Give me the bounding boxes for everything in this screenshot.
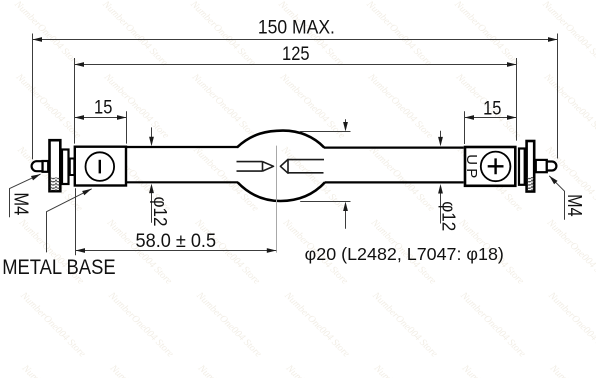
tube wall bottom-left segment	[127, 181, 238, 183]
UP label	[463, 154, 480, 178]
extension line 58 left	[75, 188, 77, 255]
extension line 150 left	[32, 34, 34, 160]
extension line 150 right	[557, 34, 559, 159]
dimension text 150 MAX	[258, 17, 335, 38]
phi12 left arrow bottom	[149, 184, 154, 223]
M4 label right	[563, 194, 585, 217]
dimension line 125	[75, 62, 517, 67]
dimension line 58.0	[76, 248, 277, 253]
right pin cap	[547, 162, 557, 171]
left connector collar	[70, 159, 75, 176]
METAL BASE leader	[47, 187, 93, 253]
svg-text:φ12: φ12	[150, 197, 170, 227]
dimension text 15 right	[483, 99, 501, 120]
M4 label left	[9, 192, 31, 215]
bulb bottom arc	[238, 182, 325, 201]
left polarity circle (minus)	[86, 152, 115, 181]
svg-text:φ12: φ12	[439, 201, 459, 231]
extension line 125 left	[74, 58, 76, 144]
tube wall top-left segment	[127, 146, 238, 148]
right electrode	[280, 159, 324, 173]
right flange	[527, 141, 535, 192]
tube wall top-right segment	[324, 147, 464, 149]
phi20 arrow top	[343, 119, 348, 131]
phi12 right label	[439, 201, 459, 231]
svg-text:150 MAX.: 150 MAX.	[258, 17, 335, 38]
tube wall bottom-right segment	[325, 181, 464, 183]
dimension text 58.0 ± 0.5	[136, 230, 217, 252]
svg-text:58.0 ± 0.5: 58.0 ± 0.5	[136, 230, 217, 252]
left base box	[75, 147, 126, 186]
right ring	[519, 149, 525, 185]
dimension text 125	[282, 44, 310, 65]
svg-text:M4: M4	[9, 192, 31, 215]
right polarity circle (plus)	[481, 152, 511, 182]
right pin	[536, 160, 547, 172]
bulb top arc	[237, 131, 324, 148]
M4 leader left	[10, 172, 42, 217]
svg-text:φ20 (L2482, L7047: φ18): φ20 (L2482, L7047: φ18)	[305, 244, 504, 264]
dimension text 15 left	[94, 97, 112, 118]
dimension line 15 right	[465, 115, 517, 120]
left electrode	[237, 162, 274, 172]
left ring	[62, 150, 69, 185]
svg-text:M4: M4	[563, 194, 585, 217]
phi20 extension bottom	[300, 201, 350, 203]
phi20 label	[305, 244, 504, 264]
centerline of bulb	[276, 146, 278, 253]
phi12 left label	[150, 197, 170, 227]
phi20 arrow bottom	[343, 202, 348, 229]
svg-text:125: 125	[282, 44, 310, 65]
extension line 125 right	[516, 58, 518, 141]
M4 leader right	[547, 174, 564, 220]
dimension line 150 MAX	[33, 37, 558, 42]
METAL BASE label	[2, 255, 115, 279]
phi12 left arrow top	[149, 127, 154, 146]
left flange	[50, 140, 61, 191]
right base box	[465, 147, 515, 186]
svg-text:15: 15	[94, 97, 112, 118]
extension line 15 right-box left	[464, 111, 466, 144]
svg-text:15: 15	[483, 99, 501, 120]
svg-text:METAL BASE: METAL BASE	[2, 255, 115, 279]
left pin cap	[32, 161, 43, 171]
extension line 15 left-box right	[126, 111, 128, 143]
left pin	[43, 161, 49, 172]
phi20 extension top	[300, 131, 351, 133]
phi12 right arrow bottom	[438, 184, 443, 224]
dimension line 15 left	[75, 115, 127, 120]
phi12 right arrow top	[438, 131, 443, 147]
